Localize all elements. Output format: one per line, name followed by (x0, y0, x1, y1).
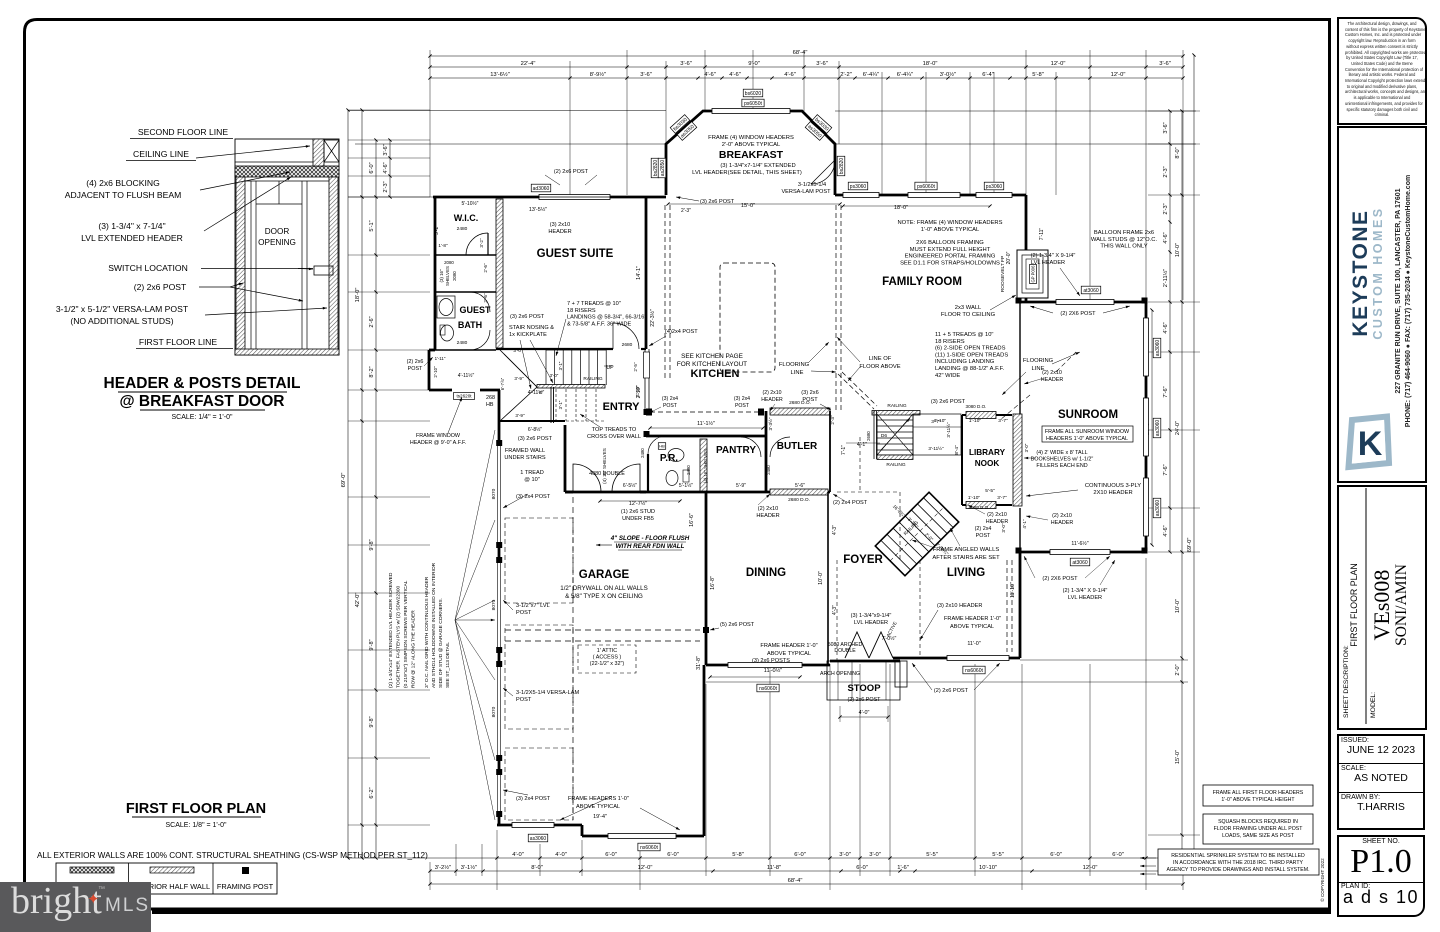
svg-text:ad3060: ad3060 (533, 186, 550, 192)
svg-text:1' ATTIC: 1' ATTIC (597, 648, 618, 654)
guest bath toilet (441, 325, 454, 341)
svg-text:SCALE: 1/8" = 1'-0": SCALE: 1/8" = 1'-0" (166, 822, 227, 829)
svg-text:4'-6": 4'-6" (1163, 525, 1169, 536)
svg-text:OPENING: OPENING (258, 238, 296, 247)
svg-text:18 RISERS: 18 RISERS (935, 339, 965, 345)
svg-text:ROW @ 12" ALONG THE HEADER: ROW @ 12" ALONG THE HEADER (411, 610, 417, 688)
garage header dashed rects (505, 518, 573, 603)
post at end of kitchen wall (644, 409, 650, 415)
svg-text:(2) 1-3/4"x14" EXTENDED LVL HE: (2) 1-3/4"x14" EXTENDED LVL HEADER SCREW… (388, 572, 394, 688)
svg-text:W.I.C.: W.I.C. (454, 213, 479, 223)
svg-text:3'-0½": 3'-0½" (940, 71, 956, 78)
svg-text:4'-6": 4'-6" (383, 162, 389, 173)
svg-text:22'-4": 22'-4" (521, 61, 536, 67)
svg-text:2'-6": 2'-6" (483, 263, 488, 273)
svg-text:LANDINGS @ 58-3/4", 66-3/16": LANDINGS @ 58-3/4", 66-3/16" (567, 315, 646, 321)
svg-text:FRAMED WALL: FRAMED WALL (505, 448, 545, 454)
svg-text:14'-1": 14'-1" (636, 266, 642, 280)
svg-text:2'-5": 2'-5" (633, 362, 638, 372)
breakfast door arc (811, 160, 835, 184)
svg-text:HB: HB (659, 443, 665, 448)
svg-text:(11) 1-SIDE OPEN TREADS: (11) 1-SIDE OPEN TREADS (935, 352, 1008, 358)
svg-text:(3) 2x4 POST: (3) 2x4 POST (516, 494, 551, 500)
svg-text:(3) 2x6: (3) 2x6 (801, 390, 818, 396)
svg-text:IN ACCORDANCE WITH THE 2018 IR: IN ACCORDANCE WITH THE 2018 IRC. THIRD P… (1173, 860, 1303, 866)
svg-text:3'-0": 3'-0" (839, 852, 851, 858)
legend box (56, 863, 277, 894)
svg-text:(3) 2x10 HEADER: (3) 2x10 HEADER (937, 603, 982, 609)
svg-text:(2) 2x10: (2) 2x10 (1042, 370, 1062, 376)
svg-text:(5) 2x6 POST: (5) 2x6 POST (720, 622, 755, 628)
leader to joists (196, 146, 310, 158)
svg-text:FOR KITCHEN LAYOUT: FOR KITCHEN LAYOUT (677, 361, 747, 368)
svg-text:22'-3½": 22'-3½" (649, 309, 656, 327)
svg-text:(2) 2X6 POST: (2) 2X6 POST (1060, 311, 1096, 317)
svg-text:6'-0": 6'-0" (1112, 852, 1124, 858)
svg-text:(2) 2x10: (2) 2x10 (1052, 513, 1072, 519)
svg-text:FLOOR ABOVE: FLOOR ABOVE (859, 364, 900, 370)
svg-text:SECOND FLOOR LINE: SECOND FLOOR LINE (138, 127, 229, 137)
svg-text:6'-7⅞": 6'-7⅞" (500, 377, 505, 390)
title block: sheet no box (1337, 835, 1425, 917)
svg-text:(2) 2X6 POST: (2) 2X6 POST (1042, 576, 1078, 582)
svg-text:7'-6": 7'-6" (1163, 464, 1169, 475)
svg-text:CUSTOM HOMES: CUSTOM HOMES (1371, 206, 1385, 339)
svg-text:LANDING @ 88-1/2" A.F.F.: LANDING @ 88-1/2" A.F.F. (935, 366, 1005, 372)
svg-text:FIRST FLOOR PLAN: FIRST FLOOR PLAN (1349, 563, 1359, 646)
svg-text:(3) 1-3/4" x 7-1/4": (3) 1-3/4" x 7-1/4" (98, 221, 165, 231)
svg-text:(3) 1-3/4"x9-1/4": (3) 1-3/4"x9-1/4" (851, 613, 892, 619)
detail: right versa-lam post (329, 177, 338, 354)
svg-text:(4) 16" SHELVES: (4) 16" SHELVES (703, 449, 708, 483)
entry stairs railing bar (537, 385, 605, 389)
svg-text:6'-4¼": 6'-4¼" (897, 72, 913, 78)
svg-text:LVL EXTENDED HEADER: LVL EXTENDED HEADER (81, 233, 183, 243)
svg-text:4'-11½": 4'-11½" (458, 372, 475, 379)
svg-text:8070: 8070 (491, 706, 497, 717)
svg-text:18 RISERS: 18 RISERS (567, 308, 596, 314)
svg-text:3'-1": 3'-1" (558, 361, 563, 370)
svg-text:@ BREAKFAST DOOR: @ BREAKFAST DOOR (120, 393, 285, 410)
svg-text:& 5/8" TYPE X ON CEILING: & 5/8" TYPE X ON CEILING (565, 593, 643, 600)
svg-text:8070: 8070 (491, 599, 497, 610)
breakfast bay left angled window labels (670, 115, 690, 134)
svg-text:4'-0": 4'-0" (512, 852, 524, 858)
butler top cased opening (770, 408, 830, 415)
svg-text:6'-2": 6'-2" (369, 787, 375, 798)
fireplace roosevelt fp (1017, 250, 1048, 298)
sunroom top window at3060 (1056, 300, 1114, 305)
kitchen boundary dashed left (664, 205, 666, 380)
svg-text:69'-0": 69'-0" (1187, 538, 1193, 553)
bottom cased opening hatch (770, 489, 828, 495)
svg-text:18'-0": 18'-0" (355, 288, 361, 303)
svg-text:CEILING LINE: CEILING LINE (133, 149, 189, 159)
svg-text:11'-0": 11'-0" (967, 641, 980, 647)
svg-text:SHEET DESCRIPTION:: SHEET DESCRIPTION: (1343, 645, 1350, 718)
svg-text:THIS WALL ONLY: THIS WALL ONLY (1100, 244, 1147, 250)
under stairs diagonals (500, 350, 537, 387)
svg-text:(3) 2x4: (3) 2x4 (662, 396, 678, 402)
library nook walls (962, 414, 1012, 416)
svg-text:POST: POST (663, 403, 678, 409)
breakfast bay top window (712, 109, 790, 114)
svg-text:(4) 16" SHELVES: (4) 16" SHELVES (602, 448, 607, 484)
legend cell framing post (242, 867, 249, 874)
svg-text:CONTINUOUS 3-PLY: CONTINUOUS 3-PLY (1085, 483, 1141, 489)
svg-text:GP P006: GP P006 (1031, 265, 1036, 283)
svg-text:POST: POST (516, 697, 532, 703)
attic access dashed box (578, 645, 636, 673)
svg-text:POST: POST (976, 533, 991, 539)
svg-text:3'-0": 3'-0" (1024, 443, 1029, 452)
living front wall (933, 657, 1020, 660)
svg-text:FLOOR TO CEILING: FLOOR TO CEILING (941, 312, 996, 318)
right horizontal extension stubs (1148, 110, 1200, 112)
svg-text:13'-5½": 13'-5½" (529, 206, 547, 213)
window ad3060 in guest suite top wall (539, 195, 610, 200)
svg-text:19'-4": 19'-4" (593, 814, 607, 820)
detail drawing: wall section frame (235, 139, 339, 355)
svg-text:3'-2½": 3'-2½" (435, 864, 451, 871)
dining right wall (827, 492, 829, 665)
notes box frame all first floor headers (1203, 785, 1313, 806)
svg-text:bs6020: bs6020 (745, 91, 762, 97)
guest bath fixtures: vanity (437, 296, 455, 318)
garage left wall with door openings (498, 421, 501, 445)
svg-text:as3060: as3060 (1155, 420, 1161, 437)
svg-text:HEADER: HEADER (548, 229, 571, 235)
svg-text:2'-10": 2'-10" (635, 385, 640, 397)
line of floor above dashed diagonal (838, 374, 874, 409)
svg-text:11'-8": 11'-8" (767, 865, 781, 871)
svg-text:FIRST FLOOR LINE: FIRST FLOOR LINE (139, 337, 217, 347)
legend cell interior half wall (150, 867, 194, 873)
svg-text:INCLUDING LANDING: INCLUDING LANDING (935, 359, 995, 365)
guest bath left jog (429, 349, 435, 352)
svg-text:BATH: BATH (458, 320, 482, 330)
svg-text:2'-6": 2'-6" (369, 316, 375, 327)
svg-text:3'-6": 3'-6" (816, 61, 828, 67)
svg-text:(3) 16": (3) 16" (439, 269, 444, 282)
svg-text:2x3 WALL: 2x3 WALL (955, 305, 982, 311)
svg-text:8070: 8070 (491, 488, 497, 499)
svg-text:10'-0": 10'-0" (1175, 599, 1181, 613)
svg-text:HEADER @ 9'-0" A.F.F.: HEADER @ 9'-0" A.F.F. (410, 440, 466, 446)
svg-text:TOP TREADS TO: TOP TREADS TO (592, 427, 637, 433)
svg-text:4'-6": 4'-6" (784, 72, 796, 78)
garage door jamb lines (497, 445, 499, 543)
svg-text:4'-6": 4'-6" (1163, 322, 1169, 333)
svg-text:3'-11½": 3'-11½" (945, 422, 951, 438)
svg-text:(3) 2x10: (3) 2x10 (550, 222, 571, 228)
svg-text:FRAME WINDOW: FRAME WINDOW (416, 433, 461, 439)
svg-text:BALLOON FRAME 2x6: BALLOON FRAME 2x6 (1094, 230, 1154, 236)
svg-text:3'-1": 3'-1" (558, 400, 563, 409)
svg-text:3'-0": 3'-0" (869, 852, 881, 858)
garage bottom wall (497, 824, 582, 827)
svg-text:POST: POST (802, 397, 818, 403)
svg-text:(2) 2x4 POST: (2) 2x4 POST (833, 500, 868, 506)
detail: header line under beam (245, 180, 329, 182)
svg-text:ns6060t: ns6060t (965, 668, 983, 674)
svg-text:3'-6": 3'-6" (680, 61, 692, 67)
extension line y=110 (348, 110, 666, 112)
svg-text:3'-2": 3'-2" (479, 238, 484, 248)
svg-text:as2850: as2850 (660, 160, 666, 177)
left horizontal extension stubs (348, 109, 430, 111)
svg-text:2'-11½": 2'-11½" (1162, 269, 1169, 288)
svg-text:4'-1": 4'-1" (1022, 519, 1027, 529)
svg-text:RAILING: RAILING (886, 462, 905, 468)
kitchen boundary dashed right (835, 205, 837, 412)
svg-text:4'-6": 4'-6" (729, 72, 741, 78)
notes box residential sprinkler (1158, 849, 1319, 875)
extension line y=144 (355, 143, 666, 145)
svg-text:VERSA-LAM POST: VERSA-LAM POST (781, 189, 831, 195)
svg-text:GUEST SUITE: GUEST SUITE (537, 248, 614, 260)
svg-text:SUNROOM: SUNROOM (1058, 409, 1118, 421)
title block: copyright box (1337, 17, 1427, 125)
svg-text:2480: 2480 (457, 226, 468, 232)
svg-text:5'-5": 5'-5" (926, 852, 938, 858)
svg-text:2'-3": 2'-3" (383, 181, 389, 192)
svg-text:8'-4": 8'-4" (954, 445, 960, 455)
wic door arc (466, 233, 488, 255)
svg-text:(2) 2x6 POST: (2) 2x6 POST (934, 688, 969, 694)
svg-text:1'-8": 1'-8" (438, 243, 448, 248)
legend cell 2-3 interior wall (70, 867, 114, 873)
top extension lines (429, 50, 431, 197)
family room top wall windows (843, 193, 879, 198)
svg-text:1'-0" ABOVE TYPICAL: 1'-0" ABOVE TYPICAL (921, 227, 980, 233)
svg-text:11'-6½": 11'-6½" (1071, 540, 1088, 547)
svg-text:(2) 2x6 POST: (2) 2x6 POST (848, 697, 882, 703)
svg-text:2680: 2680 (866, 431, 871, 441)
svg-text:FAMILY ROOM: FAMILY ROOM (882, 276, 962, 288)
svg-text:FLOOR FRAMING UNDER ALL POST: FLOOR FRAMING UNDER ALL POST (1214, 826, 1304, 832)
svg-text:ARCH OPENING: ARCH OPENING (820, 671, 860, 677)
svg-text:AFTER STAIRS ARE SET: AFTER STAIRS ARE SET (932, 555, 1000, 561)
svg-text:11'-1½": 11'-1½" (697, 420, 715, 427)
svg-text:RESIDENTIAL SPRINKLER SYSTEM T: RESIDENTIAL SPRINKLER SYSTEM TO BE INSTA… (1171, 853, 1305, 859)
svg-text:5'-5": 5'-5" (985, 488, 995, 494)
top dimension line 68-4 (430, 55, 1183, 57)
svg-text:PHONE: (717) 464-9060 ● FAX: (: PHONE: (717) 464-9060 ● FAX: (717) 735-2… (1405, 174, 1412, 426)
svg-text:7'-1": 7'-1" (841, 445, 847, 455)
bottom dims tier3 68-4 (430, 883, 1183, 885)
svg-text:3'-3½": 3'-3½" (767, 417, 773, 430)
svg-text:RAILING: RAILING (583, 376, 602, 382)
svg-text:(3) 1-3/4"x7-1/4" EXTENDED: (3) 1-3/4"x7-1/4" EXTENDED (720, 163, 795, 169)
shelves closet walls (435, 291, 496, 293)
svg-text:FLOORING: FLOORING (779, 362, 810, 368)
exterior wall: guest suite top (433, 196, 666, 199)
svg-text:3'-6": 3'-6" (1163, 122, 1169, 133)
main stair upper run (877, 414, 913, 455)
svg-text:3'-11½": 3'-11½" (928, 445, 944, 451)
svg-text:4'-3": 4'-3" (832, 525, 838, 535)
butler door arc (770, 437, 790, 457)
detail: rim X block (324, 140, 339, 162)
svg-text:16'-8": 16'-8" (710, 576, 716, 590)
svg-text:2680: 2680 (622, 342, 633, 348)
svg-text:3-1/2x5-1/4: 3-1/2x5-1/4 (798, 182, 826, 188)
extension line y=111 right (835, 110, 1196, 112)
svg-text:ABOVE TYPICAL: ABOVE TYPICAL (767, 651, 811, 657)
svg-text:SONI/AMIN: SONI/AMIN (1393, 564, 1410, 646)
svg-text:6'-5½": 6'-5½" (623, 482, 637, 489)
svg-text:K: K (1357, 425, 1382, 463)
svg-text:(NO ADDITIONAL STUDS): (NO ADDITIONAL STUDS) (70, 316, 173, 326)
detail: inner trimmer right (301, 181, 303, 354)
svg-text:HB: HB (486, 402, 494, 408)
svg-text:11'-0½": 11'-0½" (764, 667, 783, 674)
svg-text:10'-0": 10'-0" (818, 571, 824, 585)
svg-text:1'-10": 1'-10" (969, 418, 982, 424)
svg-text:SCALE: 1/4" = 1'-0": SCALE: 1/4" = 1'-0" (172, 414, 233, 421)
svg-text:10'-0": 10'-0" (1175, 243, 1181, 257)
svg-text:(3) 2x6 POSTS: (3) 2x6 POSTS (752, 658, 790, 664)
svg-text:UNDER FB5: UNDER FB5 (622, 516, 654, 522)
family room right wall (1025, 195, 1028, 250)
svg-text:2'-0" ABOVE TYPICAL: 2'-0" ABOVE TYPICAL (722, 142, 781, 148)
svg-text:4'-6": 4'-6" (1163, 232, 1169, 243)
svg-text:2480: 2480 (457, 340, 468, 346)
svg-text:2X10 HEADER: 2X10 HEADER (1093, 490, 1132, 496)
svg-text:2480: 2480 (640, 448, 645, 458)
svg-text:LVL HEADER: LVL HEADER (1031, 260, 1065, 266)
garage line of ceiling dashed (572, 497, 574, 820)
svg-text:6'-0": 6'-0" (605, 852, 617, 858)
garage leader arrows (503, 600, 513, 610)
svg-text:2'-0": 2'-0" (924, 532, 934, 542)
svg-text:9'-0": 9'-0" (748, 61, 760, 67)
svg-text:NOOK: NOOK (975, 459, 1000, 468)
entry side wall (564, 425, 567, 492)
svg-text:LVL HEADER: LVL HEADER (854, 620, 888, 626)
svg-text:1x KICKPLATE: 1x KICKPLATE (509, 332, 547, 338)
front window ns6060t left (608, 834, 676, 839)
flooring line dashed (1000, 395, 1030, 420)
entry front wall w/ door (429, 389, 452, 392)
svg-text:6'-0": 6'-0" (369, 162, 375, 173)
svg-text:(2) 2x6: (2) 2x6 (407, 359, 424, 365)
svg-text:5'-8": 5'-8" (1032, 72, 1044, 78)
svg-text:GUEST: GUEST (459, 305, 491, 315)
svg-text:(3) 2x6 POST: (3) 2x6 POST (518, 436, 553, 442)
svg-text:1'-0" ABOVE TYPICAL HEIGHT: 1'-0" ABOVE TYPICAL HEIGHT (1221, 797, 1295, 803)
sunroom corner posts (1016, 298, 1022, 304)
svg-text:FRAME ALL FIRST FLOOR HEADERS: FRAME ALL FIRST FLOOR HEADERS (1213, 790, 1304, 796)
svg-text:at3060: at3060 (1083, 288, 1099, 294)
svg-text:ALL EXTERIOR WALLS ARE 100% CO: ALL EXTERIOR WALLS ARE 100% CONT. STRUCT… (37, 851, 428, 860)
svg-text:HEADER: HEADER (1041, 377, 1064, 383)
svg-text:FRAME ALL SUNROOM WINDOW: FRAME ALL SUNROOM WINDOW (1045, 429, 1130, 435)
wall below fireplace (1025, 298, 1028, 302)
garage note leader fan (455, 430, 495, 620)
svg-text:FRAMING POST: FRAMING POST (217, 882, 274, 891)
svg-text:NOTE: FRAME (4) WINDOW HEADERS: NOTE: FRAME (4) WINDOW HEADERS (898, 220, 1003, 226)
svg-text:3'-9": 3'-9" (514, 376, 524, 381)
svg-text:MUST EXTEND FULL HEIGHT: MUST EXTEND FULL HEIGHT (910, 247, 991, 253)
detail: ceiling line (235, 161, 313, 163)
svg-text:(4) 2' WIDE x 8' TALL: (4) 2' WIDE x 8' TALL (1036, 450, 1087, 456)
svg-text:4'-0": 4'-0" (555, 852, 567, 858)
angled stairs (875, 492, 958, 575)
detail: left post hatched (236, 177, 245, 354)
svg-text:68'-4": 68'-4" (788, 878, 803, 884)
svg-text:FLOORING: FLOORING (1023, 358, 1054, 364)
svg-text:3080 D.O.: 3080 D.O. (969, 505, 990, 510)
right dim vertical 69-0 (1193, 55, 1195, 858)
svg-text:3'-0": 3'-0" (1001, 523, 1006, 533)
svg-text:5'-1": 5'-1" (369, 220, 375, 231)
leader to header (204, 177, 291, 231)
svg-text:5'-6": 5'-6" (795, 483, 805, 489)
family room top wall (835, 194, 1026, 197)
svg-text:STOOP: STOOP (847, 683, 881, 694)
svg-text:4080 DOUBLE: 4080 DOUBLE (589, 471, 625, 477)
svg-text:9'-8": 9'-8" (369, 716, 375, 727)
svg-text:FRAME HEADER 1'-0": FRAME HEADER 1'-0" (760, 643, 817, 649)
pantry butler wall (765, 411, 768, 492)
svg-text:BREAKFAST: BREAKFAST (719, 149, 784, 161)
wic bottom wall (435, 254, 496, 256)
svg-text:HEADER: HEADER (756, 513, 779, 519)
svg-text:3'-6": 3'-6" (383, 144, 389, 155)
svg-text:2080: 2080 (444, 260, 454, 265)
arched double door at stoop (845, 632, 869, 658)
svg-text:SEE KITCHEN PAGE: SEE KITCHEN PAGE (681, 353, 743, 360)
leader to flush beam (200, 172, 290, 190)
step between garage and front wall (581, 825, 584, 836)
svg-text:(3) 2x6 POST: (3) 2x6 POST (931, 399, 966, 405)
svg-text:13'-6½": 13'-6½" (490, 71, 510, 78)
svg-text:1'-11": 1'-11" (435, 356, 446, 361)
keystone K badge (1348, 416, 1389, 467)
svg-text:1'-10": 1'-10" (968, 495, 981, 501)
svg-text:POST: POST (516, 610, 532, 616)
svg-text:24'-0": 24'-0" (1175, 421, 1181, 435)
svg-text:(2) 2x6 POST: (2) 2x6 POST (554, 169, 589, 175)
svg-text:BUTLER: BUTLER (777, 441, 818, 452)
svg-text:8'-9½": 8'-9½" (590, 71, 606, 78)
svg-text:8'-0": 8'-0" (531, 865, 543, 871)
kitchen right dashed opening (859, 437, 861, 492)
svg-text:16'-8¾": 16'-8¾" (892, 504, 907, 519)
left extension to guest wall y=197 (348, 196, 433, 198)
breakfast bay right angled window labels (812, 115, 832, 134)
dining left wall (705, 492, 708, 665)
svg-text:2'-3": 2'-3" (1163, 203, 1169, 214)
svg-text:BOOKSHELVES w/ 1-1/2": BOOKSHELVES w/ 1-1/2" (1031, 456, 1094, 462)
svg-text:6'-4¼": 6'-4¼" (863, 72, 879, 78)
svg-text:STAIR NOSING &: STAIR NOSING & (509, 325, 554, 331)
stoop dim 4-0 (840, 716, 888, 718)
under stairs wall (550, 387, 552, 423)
wic/guest suite partition wall (496, 199, 503, 348)
guest bath door arcs (470, 292, 490, 312)
breakfast bay right wall window label (837, 156, 845, 176)
foyer dashed boundary (837, 491, 900, 493)
detail: switch box (314, 266, 333, 275)
bottom extension lines (496, 830, 498, 890)
bottom dims tier1 (497, 857, 1183, 859)
svg-text:DOUBLE: DOUBLE (834, 648, 856, 654)
stoop outline (827, 661, 900, 700)
guest suite bottom wall with 2680 door (496, 348, 613, 350)
